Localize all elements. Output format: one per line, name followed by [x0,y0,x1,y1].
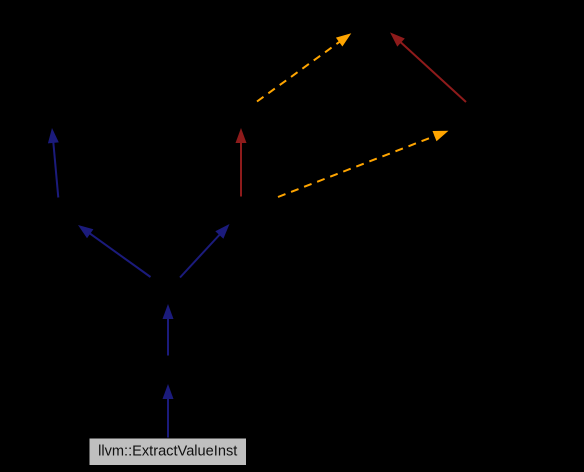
arrow template ilist_node_with_parent->ilist_node_impl (dark red) [390,32,466,102]
arrow ilist_node_impl template instantiation (orange dashed) [257,33,351,101]
svg-text:llvm::ExtractValueInst: llvm::ExtractValueInst [98,444,237,460]
arrow User->Value (blue) [48,128,59,198]
arrow UnaryInstruction->Instruction (blue) [163,304,174,356]
arrow Instruction->ilist_node_with_parent (blue) [180,224,230,278]
arrow ExtractValueInst->UnaryInstruction (blue) [163,384,174,439]
arrow ilist_node_with_parent->ilist_node_impl (dark red) [236,128,247,197]
node llvm::ExtractValueInst (current class, grey box) [89,438,247,466]
arrow ilist_node_with_parent template instantiation (orange dashed) [278,131,449,197]
arrow Instruction->User (blue) [78,225,151,277]
